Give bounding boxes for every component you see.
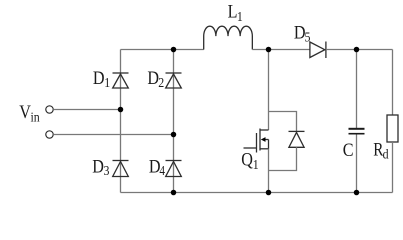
terminal Vin plus [46, 106, 53, 113]
wire right bridge vertical [173, 50, 175, 193]
svg-text:C: C [343, 139, 354, 161]
wire body-diode branch bottom [269, 147, 297, 170]
diode D4 [166, 161, 182, 177]
svg-text:V: V [19, 101, 31, 123]
svg-text:1: 1 [104, 74, 110, 90]
wire body-diode branch top [269, 112, 297, 132]
wire right vertical upper [392, 50, 394, 116]
wire capacitor top [356, 50, 358, 129]
wire Q1 drain vertical [268, 50, 270, 131]
wire Q1 source vertical [268, 149, 270, 193]
svg-text:L: L [228, 0, 238, 22]
inductor L1 [204, 26, 253, 49]
wire Vin bottom [53, 134, 173, 136]
node junction D4 bottom [171, 190, 177, 196]
terminal Vin minus [46, 131, 53, 138]
capacitor C [349, 129, 365, 134]
svg-text:1: 1 [253, 156, 259, 172]
node junction Q1 source bottom [266, 190, 272, 196]
node junction D2 top [171, 47, 177, 53]
svg-text:D: D [92, 155, 104, 177]
diode D3 [113, 161, 129, 177]
node junction C bottom [354, 190, 360, 196]
svg-text:2: 2 [158, 74, 164, 90]
diode D1 [113, 73, 129, 88]
diode D2 [166, 73, 182, 88]
node junction Q1 drain / D5 anode [266, 47, 272, 53]
resistor Rd [387, 115, 398, 142]
diode D5 [310, 42, 326, 59]
svg-text:Q: Q [241, 148, 253, 170]
svg-text:D: D [93, 67, 105, 89]
svg-text:4: 4 [159, 163, 165, 178]
svg-text:d: d [383, 145, 389, 161]
svg-text:5: 5 [305, 29, 311, 45]
transistor Q1 [244, 129, 269, 153]
wire right vertical lower [392, 142, 394, 193]
wire capacitor bottom [356, 135, 358, 193]
node junction Vin plus / left bridge [118, 107, 124, 113]
wire top rail right [326, 49, 393, 51]
diode body (antiparallel with Q1) [289, 131, 305, 147]
wire Vin top [53, 109, 120, 111]
node junction D5 cathode / C top [354, 47, 360, 53]
svg-text:1: 1 [237, 8, 243, 24]
wire top rail left [121, 49, 204, 51]
svg-text:in: in [31, 108, 41, 124]
node junction Vin minus / right bridge [171, 132, 177, 138]
wire left bridge vertical [120, 50, 122, 193]
svg-text:3: 3 [104, 162, 110, 178]
wire top rail middle [252, 49, 310, 51]
wire bottom rail [121, 192, 393, 194]
